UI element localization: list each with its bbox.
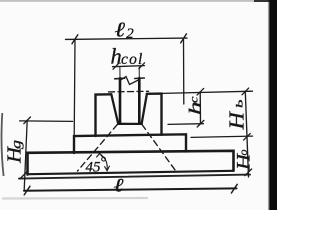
pedestal with socket bbox=[96, 94, 112, 136]
dashed 45-degree spread line right bbox=[142, 125, 177, 173]
scan artifact: left page edge arc bbox=[1, 113, 3, 176]
socket left wall bbox=[111, 94, 118, 124]
dimension hc: tick bottom bbox=[197, 120, 204, 127]
label hc (rotated) bbox=[186, 96, 205, 115]
dimension Hg: tick bottom bbox=[20, 172, 27, 179]
dimension hc: top extension line (pedestal top) bbox=[163, 91, 253, 93]
dimension hc: tick top bbox=[197, 88, 204, 95]
column top serif right bbox=[135, 77, 145, 80]
dimension l (bottom): line bbox=[24, 188, 237, 190]
slab bottom line 1 bbox=[29, 171, 234, 174]
right chain tick top bbox=[242, 88, 249, 95]
svg-text:45: 45 bbox=[86, 160, 102, 176]
svg-text:ь: ь bbox=[232, 100, 247, 109]
dimension l: tick right bbox=[231, 184, 237, 193]
middle tier bbox=[74, 134, 186, 153]
dimension hc: line bbox=[199, 92, 201, 124]
paper background bbox=[0, 0, 277, 210]
svg-text:o: o bbox=[236, 150, 250, 156]
slab bottom line 2 (lean concrete) bbox=[19, 175, 250, 179]
dashed 45-degree spread line left bbox=[78, 125, 118, 172]
svg-text:col: col bbox=[121, 51, 144, 68]
label Hb (rotated) bbox=[225, 100, 249, 131]
label Hg (rotated) bbox=[4, 140, 26, 164]
45 degree arc with arrow bbox=[100, 154, 108, 170]
dimension l2: extension line right bbox=[183, 39, 185, 104]
dimension hcol: line bbox=[113, 66, 145, 67]
right dimension chain line (Hb over Ho) bbox=[245, 91, 248, 177]
svg-text:H: H bbox=[225, 110, 249, 131]
dimension Hg: line bbox=[24, 120, 27, 190]
svg-text:ℓ: ℓ bbox=[114, 175, 124, 196]
dimension l: tick left bbox=[24, 186, 30, 195]
svg-text:ℓ: ℓ bbox=[115, 18, 126, 42]
svg-text:2: 2 bbox=[126, 26, 134, 42]
scan artifact: faint smudge bottom left bbox=[2, 197, 148, 200]
column top serif left bbox=[115, 77, 125, 80]
dimension l2: tick right bbox=[181, 34, 187, 43]
svg-text:g: g bbox=[9, 140, 24, 149]
right chain tick bottom bbox=[245, 169, 252, 176]
dimension hc: bottom extension line (socket bottom) bbox=[168, 123, 204, 126]
socket right wall bbox=[142, 94, 147, 124]
footing slab (bottom tier) outline bbox=[28, 151, 234, 175]
dimension l2: tick left bbox=[72, 35, 78, 44]
svg-text:c: c bbox=[187, 96, 201, 103]
dimension l2: line bbox=[66, 38, 188, 39]
dimension hcol: tick left bbox=[113, 63, 119, 69]
column left edge bbox=[119, 78, 122, 123]
label Ho (rotated) bbox=[234, 150, 255, 172]
scan artifact: top border line bbox=[0, 0, 277, 2]
hidden socket opening dashed line bbox=[109, 90, 149, 93]
extension line middle tier top right bbox=[191, 136, 253, 137]
dimension Hg: tick top bbox=[24, 117, 31, 124]
dimension Hg: extension line (column base level) bbox=[20, 120, 73, 123]
column extension lines up to hcol dimension bbox=[120, 67, 139, 78]
right chain tick middle bbox=[244, 133, 251, 140]
column break zigzag bbox=[120, 77, 139, 85]
socket bottom bbox=[118, 123, 141, 125]
dimension hcol: tick right bbox=[139, 63, 145, 69]
column right edge bbox=[138, 78, 141, 123]
dimension l2: extension line left bbox=[73, 40, 76, 137]
